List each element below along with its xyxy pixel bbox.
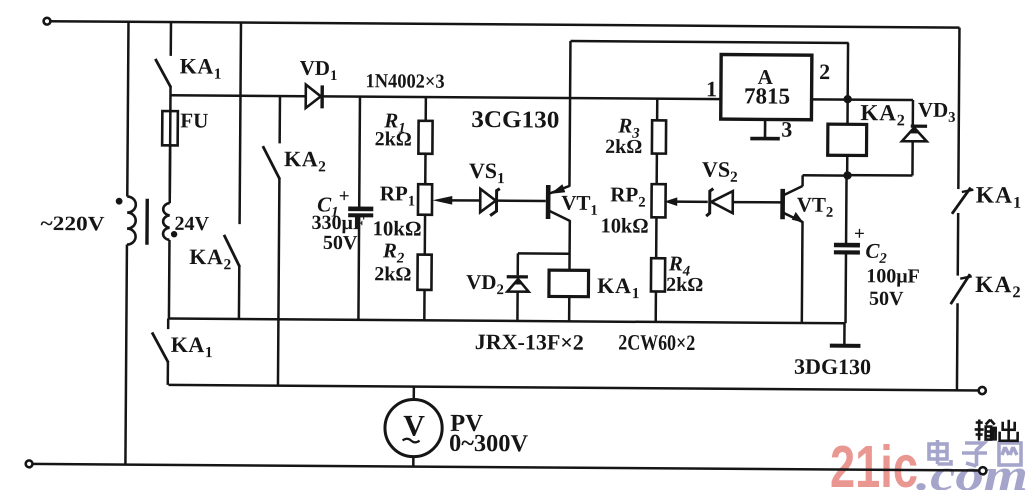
svg-text:2CW60×2: 2CW60×2 — [618, 329, 695, 355]
svg-text:7815: 7815 — [744, 83, 790, 108]
svg-text:JRX-13F×2: JRX-13F×2 — [475, 329, 584, 355]
svg-text:1N4002×3: 1N4002×3 — [366, 70, 445, 93]
svg-text:+: + — [854, 224, 865, 245]
svg-text:2kΩ: 2kΩ — [375, 128, 412, 150]
svg-text:3CG130: 3CG130 — [471, 107, 559, 134]
svg-text:1: 1 — [706, 76, 717, 101]
svg-text:24V: 24V — [175, 213, 210, 235]
svg-text:50V: 50V — [869, 288, 904, 310]
svg-text:10kΩ: 10kΩ — [601, 213, 649, 237]
svg-text:2: 2 — [819, 59, 830, 84]
svg-text:2kΩ: 2kΩ — [666, 274, 703, 296]
svg-text:+: + — [339, 186, 350, 207]
svg-text:FU: FU — [180, 108, 208, 132]
svg-text:330μF: 330μF — [312, 212, 366, 234]
svg-text:3: 3 — [781, 117, 792, 142]
svg-text:3DG130: 3DG130 — [794, 354, 871, 380]
svg-text:0~300V: 0~300V — [449, 430, 528, 458]
svg-text:2kΩ: 2kΩ — [374, 263, 411, 285]
svg-text:10kΩ: 10kΩ — [372, 216, 421, 240]
svg-text:21ic: 21ic — [830, 434, 918, 490]
svg-text:50V: 50V — [323, 232, 358, 254]
svg-text:~220V: ~220V — [41, 213, 105, 235]
svg-text:100μF: 100μF — [866, 265, 920, 287]
svg-text:2kΩ: 2kΩ — [605, 136, 642, 158]
